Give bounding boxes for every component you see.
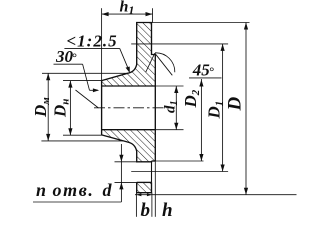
dimension d1 bbox=[175, 86, 177, 130]
plate bottom part outline bbox=[137, 182, 152, 192]
flange lower half section (hatched) bbox=[102, 130, 156, 162]
svg-text:отв.: отв. bbox=[53, 180, 95, 200]
bore upper extension bbox=[155, 85, 183, 87]
bolt hole center line bbox=[131, 171, 228, 173]
bolt circle upper mark bbox=[131, 43, 228, 45]
svg-text:D: D bbox=[225, 97, 246, 112]
dimension D2 bbox=[200, 79, 202, 161]
flange upper half section (hatched) bbox=[102, 23, 156, 87]
bore lower line bbox=[102, 129, 156, 131]
bore upper line bbox=[102, 85, 156, 87]
dimension Dm (left) bbox=[41, 73, 127, 141]
30deg construction line bbox=[76, 90, 99, 108]
45deg arc bbox=[155, 53, 175, 73]
45deg construction legs bbox=[146, 53, 155, 72]
flange plate below bolt hole (hatched) bbox=[137, 182, 152, 192]
svg-text:30°: 30° bbox=[55, 47, 77, 66]
raised face bottom extension bbox=[155, 160, 203, 162]
dimension D bbox=[245, 23, 247, 195]
right side extension lines bbox=[131, 23, 296, 195]
bolt hole d dimension bbox=[115, 144, 137, 202]
right face line bbox=[154, 55, 156, 162]
bore lower extension bbox=[155, 129, 183, 131]
weld end face bbox=[101, 81, 103, 135]
OD top extension bbox=[152, 22, 250, 24]
svg-text:<1:2.5: <1:2.5 bbox=[67, 31, 118, 50]
svg-text:b: b bbox=[141, 200, 151, 221]
axis centerline bbox=[94, 107, 167, 109]
bolt hole far-face edge bbox=[151, 162, 153, 183]
bolt hole lower edge bbox=[137, 181, 152, 183]
svg-text:n: n bbox=[36, 180, 46, 200]
svg-text:h: h bbox=[162, 200, 173, 221]
b and h dimensions bbox=[136, 161, 155, 217]
raised face bottom edge bbox=[152, 160, 156, 162]
svg-text:h1: h1 bbox=[120, 0, 135, 17]
dimension Dn (left) bbox=[63, 81, 102, 136]
outline lower half bbox=[102, 135, 152, 162]
outline upper half bbox=[102, 23, 156, 81]
OD bottom extension / bh dim line bbox=[135, 194, 297, 196]
dimension h1 bbox=[102, 8, 153, 80]
svg-text:d: d bbox=[103, 180, 113, 200]
dimension D1 bbox=[222, 44, 224, 172]
